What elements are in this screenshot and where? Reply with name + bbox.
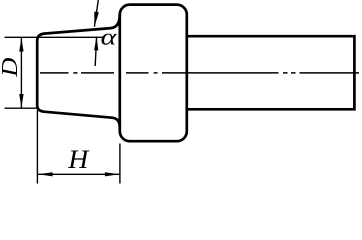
arrowhead D down [19,94,23,108]
centerline (part axis, dash-dot) [40,72,359,74]
extension line H left [36,110,38,184]
arrowhead alpha lower [94,36,98,50]
shaft (right cylinder) [188,36,355,109]
dimension line H [38,173,120,175]
flange (rounded rectangle) [120,5,187,142]
arrowhead D up [19,38,23,52]
dimension line D [20,38,22,108]
head outline (tapered boss with draft angle) [37,14,120,128]
leader line alpha lower [95,37,96,66]
leader line alpha upper [94,0,98,27]
label D [2,58,17,77]
arrowhead H right [105,172,120,176]
label alpha [102,34,117,45]
arrowhead H left [38,172,53,176]
extension line H right [119,144,121,184]
arrowhead alpha upper [94,12,99,27]
extension line bottom (D) [5,107,38,109]
extension line top (D) / alpha base reference line [5,36,105,38]
label H [68,151,90,169]
